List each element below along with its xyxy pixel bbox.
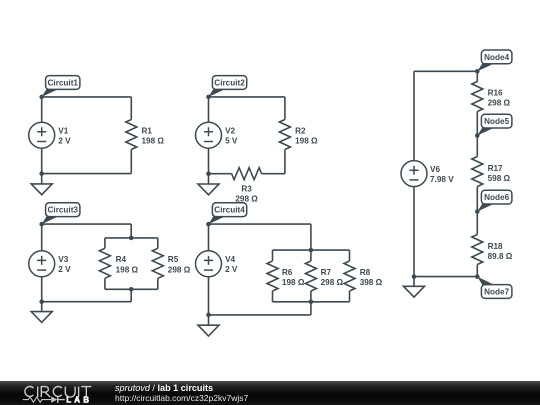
resistor R8 [344, 261, 355, 291]
wire [208, 277, 210, 315]
label R4 value [116, 255, 139, 274]
svg-text:V4: V4 [225, 255, 235, 264]
svg-text:7.98 V: 7.98 V [430, 175, 454, 184]
wire [310, 291, 312, 302]
svg-text:R6: R6 [282, 268, 293, 277]
wire [349, 250, 351, 261]
wire [105, 288, 158, 290]
wire [208, 97, 210, 122]
svg-text:Circuit1: Circuit1 [48, 79, 79, 88]
wire [310, 302, 312, 315]
node label Circuit1 [42, 76, 80, 97]
wire [42, 223, 132, 225]
label V4 2 V [225, 255, 238, 274]
resistor R17 [472, 157, 483, 187]
ground [198, 325, 219, 336]
wire [208, 174, 210, 184]
wire [130, 150, 132, 174]
wire [157, 278, 159, 289]
svg-text:Node5: Node5 [484, 117, 509, 126]
wire [413, 187, 415, 277]
wire [42, 301, 132, 303]
svg-text:R4: R4 [116, 255, 127, 264]
resistor R16 [472, 82, 483, 112]
wire [41, 174, 43, 184]
resistor R5 [152, 248, 163, 278]
label V3 2 V [58, 255, 71, 274]
label R3 value [235, 184, 258, 203]
svg-text:R1: R1 [142, 127, 153, 136]
wire [41, 277, 43, 302]
junction [412, 274, 417, 279]
node label Circuit2 [209, 76, 247, 97]
svg-text:2 V: 2 V [225, 265, 238, 274]
node label Circuit4 [209, 203, 247, 224]
wire [209, 314, 311, 316]
svg-text:Circuit4: Circuit4 [214, 206, 245, 215]
wire [272, 250, 274, 261]
svg-text:Node7: Node7 [484, 288, 509, 297]
wire [476, 71, 478, 81]
wire [476, 136, 478, 157]
ground [31, 184, 52, 195]
footer bar [0, 381, 540, 405]
junction [39, 299, 44, 304]
wire [414, 70, 477, 72]
svg-text:2 V: 2 V [58, 137, 71, 146]
junction [39, 222, 44, 227]
svg-text:V3: V3 [58, 255, 68, 264]
svg-text:198 Ω: 198 Ω [282, 278, 305, 287]
label R18 value [488, 242, 513, 261]
junction [129, 236, 134, 241]
svg-text:398 Ω: 398 Ω [360, 278, 383, 287]
CircuitLab logo [0, 381, 110, 405]
svg-text:298 Ω: 298 Ω [168, 265, 191, 274]
junction [475, 133, 480, 138]
wire [41, 302, 43, 312]
wire [130, 97, 132, 120]
svg-text:Circuit2: Circuit2 [214, 79, 245, 88]
svg-text:V1: V1 [58, 127, 68, 136]
node label Node5 [477, 114, 512, 135]
label R8 value [360, 268, 383, 287]
voltage source V2 [196, 122, 222, 148]
wire [209, 173, 232, 175]
node label Circuit3 [42, 203, 80, 224]
label R6 value [282, 268, 305, 287]
junction [206, 171, 211, 176]
junction [475, 209, 480, 214]
resistor R6 [267, 261, 278, 291]
wire [157, 238, 159, 248]
wire [262, 173, 285, 175]
wire [349, 291, 351, 302]
wire [476, 265, 478, 277]
wire [476, 112, 478, 136]
wire [310, 224, 312, 250]
label V2 5 V [225, 127, 238, 146]
junction [129, 287, 134, 292]
wire [41, 148, 43, 173]
svg-text:R2: R2 [295, 127, 306, 136]
svg-text:R17: R17 [488, 164, 503, 173]
label V6 7.98 V [430, 165, 454, 184]
junction [475, 69, 480, 74]
svg-text:598 Ω: 598 Ω [488, 174, 511, 183]
wire [208, 315, 210, 325]
ground [198, 184, 219, 195]
junction [206, 313, 211, 318]
wire [413, 71, 415, 161]
resistor R3 [232, 168, 262, 180]
svg-text:298 Ω: 298 Ω [235, 194, 258, 203]
label R17 value [488, 164, 511, 183]
svg-text:198 Ω: 198 Ω [116, 265, 139, 274]
wire [130, 224, 132, 238]
wire [272, 291, 274, 302]
ground [404, 286, 425, 297]
svg-text:198 Ω: 198 Ω [295, 137, 318, 146]
svg-text:R18: R18 [488, 242, 503, 251]
wire [105, 237, 158, 239]
wire [284, 97, 286, 120]
junction [39, 171, 44, 176]
node label Node6 [477, 190, 512, 211]
credit text [115, 384, 248, 403]
label R5 value [168, 255, 191, 274]
wire [42, 96, 132, 98]
junction [309, 300, 314, 305]
wire [310, 250, 312, 261]
svg-text:89.8 Ω: 89.8 Ω [488, 252, 513, 261]
voltage source V4 [196, 251, 222, 277]
wire [130, 289, 132, 301]
svg-text:298 Ω: 298 Ω [321, 278, 344, 287]
wire [41, 97, 43, 122]
resistor R4 [99, 248, 110, 278]
wire [284, 150, 286, 174]
wire [209, 223, 311, 225]
svg-text:2 V: 2 V [58, 265, 71, 274]
svg-text:LAB: LAB [66, 395, 92, 404]
junction [475, 274, 480, 279]
svg-text:R7: R7 [321, 268, 332, 277]
node label Node4 [477, 50, 512, 71]
wire [209, 96, 285, 98]
svg-text:V2: V2 [225, 127, 235, 136]
resistor R7 [305, 261, 316, 291]
junction [39, 95, 44, 100]
resistor R2 [279, 120, 290, 150]
wire [42, 173, 132, 175]
wire [104, 238, 106, 248]
wire [413, 277, 415, 287]
svg-text:R8: R8 [360, 268, 371, 277]
node label Node7 [477, 277, 512, 299]
label R1 value [142, 127, 165, 146]
svg-text:5 V: 5 V [225, 137, 238, 146]
label V1 2 V [58, 127, 71, 146]
svg-text:Node4: Node4 [484, 53, 509, 62]
wire [104, 278, 106, 289]
wire [273, 301, 350, 303]
wire [414, 276, 477, 278]
resistor R18 [472, 235, 483, 265]
svg-text:R3: R3 [241, 184, 252, 193]
svg-text:298 Ω: 298 Ω [488, 99, 511, 108]
svg-text:Node6: Node6 [484, 193, 509, 202]
voltage source V6 [401, 161, 427, 187]
label R2 value [295, 127, 318, 146]
label R7 value [321, 268, 344, 287]
resistor R1 [126, 120, 137, 150]
wire [273, 249, 350, 251]
junction [206, 222, 211, 227]
label R16 value [488, 89, 511, 108]
svg-text:R5: R5 [168, 255, 179, 264]
voltage source V1 [29, 122, 55, 148]
svg-text:Circuit3: Circuit3 [48, 206, 79, 215]
wire [208, 148, 210, 174]
wire [208, 224, 210, 251]
voltage source V3 [29, 251, 55, 277]
wire [476, 187, 478, 212]
svg-text:R16: R16 [488, 89, 503, 98]
junction [309, 248, 314, 253]
wire [41, 224, 43, 251]
svg-text:198 Ω: 198 Ω [142, 137, 165, 146]
svg-text:V6: V6 [430, 165, 440, 174]
wire [476, 212, 478, 235]
junction [206, 95, 211, 100]
ground [31, 312, 52, 323]
